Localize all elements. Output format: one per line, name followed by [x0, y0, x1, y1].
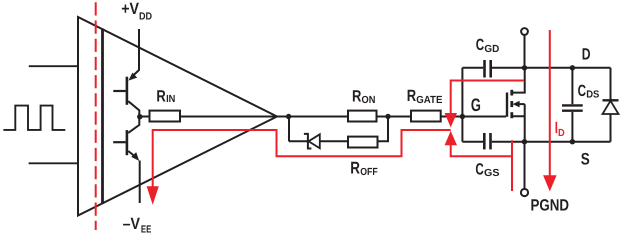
svg-text:GS: GS	[484, 168, 500, 179]
resistor R_OFF	[348, 137, 378, 148]
wire: source rail	[525, 141, 611, 143]
wire: diode to R_OFF	[320, 140, 348, 142]
wire: gate branch vertical	[461, 68, 463, 142]
wire: branch down from node A	[288, 117, 290, 142]
red path: C_GD miller current	[451, 81, 525, 115]
node: driver output junction	[137, 114, 142, 119]
terminal PGND	[521, 189, 528, 196]
svg-text:IN: IN	[166, 94, 175, 105]
wire: terminal to drain node	[524, 35, 526, 68]
body diode D2	[603, 68, 619, 142]
node A (apex junction)	[286, 114, 291, 119]
input square wave	[3, 106, 65, 130]
svg-text:C: C	[476, 36, 485, 54]
wire: +VDD supply	[138, 29, 140, 71]
svg-text:D: D	[582, 46, 591, 64]
svg-text:R: R	[352, 88, 362, 106]
svg-text:DD: DD	[139, 11, 152, 22]
red line: drain current I_D	[549, 30, 551, 176]
capacitor C_GD	[462, 60, 524, 78]
node: source junction	[522, 139, 527, 144]
mosfet M1	[507, 68, 525, 142]
svg-text:ON: ON	[362, 95, 376, 106]
red arrow: I_D into PGND	[543, 175, 557, 191]
svg-text:+V: +V	[121, 0, 139, 18]
wire: output to RIN	[140, 116, 150, 118]
wire: R_GATE to gate node	[441, 116, 463, 118]
svg-text:–V: –V	[123, 215, 141, 233]
transistor Q2 (lower NPN)	[113, 117, 140, 204]
internal rail (thick vertical bar)	[101, 29, 104, 204]
red arrow: down into gate node	[445, 113, 457, 127]
node: drain junction	[522, 65, 527, 70]
red path: C_GS current	[451, 140, 512, 191]
capacitor C_GS	[462, 133, 524, 149]
wire: bottom input	[29, 162, 78, 164]
svg-text:D: D	[558, 128, 565, 139]
svg-text:OFF: OFF	[360, 167, 378, 178]
svg-text:R: R	[407, 87, 417, 105]
capacitor C_DS	[562, 68, 583, 142]
resistor R_GATE	[411, 111, 441, 122]
svg-text:C: C	[578, 82, 587, 100]
wire: gate lead	[462, 116, 506, 118]
svg-text:R: R	[350, 159, 360, 178]
wire: R_OFF up to node B	[378, 117, 389, 142]
node B	[385, 114, 390, 119]
red dashed isolation line	[95, 2, 97, 230]
op-amp driver U1 (triangle)	[78, 17, 277, 216]
node: C_DS bottom junction	[570, 139, 575, 144]
svg-text:GD: GD	[484, 44, 499, 55]
svg-text:S: S	[581, 150, 590, 169]
red arrow: into -VEE	[147, 186, 159, 204]
svg-text:C: C	[475, 160, 484, 178]
wire: source to PGND terminal	[524, 142, 526, 189]
svg-text:G: G	[471, 95, 481, 115]
wire: top input	[29, 65, 78, 67]
resistor R_ON	[348, 111, 377, 122]
svg-text:R: R	[156, 88, 166, 106]
wire: drain rail	[525, 67, 611, 69]
transistor Q1 (upper PNP)	[113, 70, 139, 117]
svg-text:DS: DS	[586, 89, 599, 100]
red arrow: up into gate node	[445, 131, 457, 145]
wire: node B to R_GATE	[377, 116, 412, 118]
diode D1	[304, 134, 320, 149]
svg-text:GATE: GATE	[416, 95, 442, 106]
svg-text:PGND: PGND	[531, 197, 570, 215]
wire: RIN to node A	[180, 116, 348, 118]
wire: to diode	[289, 140, 307, 142]
red path: turn-off current loop	[153, 130, 451, 187]
resistor R_IN	[150, 111, 181, 122]
svg-text:EE: EE	[141, 224, 151, 235]
node: C_DS top junction	[570, 65, 575, 70]
node G (gate junction)	[460, 114, 465, 119]
terminal: drain supply	[521, 28, 528, 35]
